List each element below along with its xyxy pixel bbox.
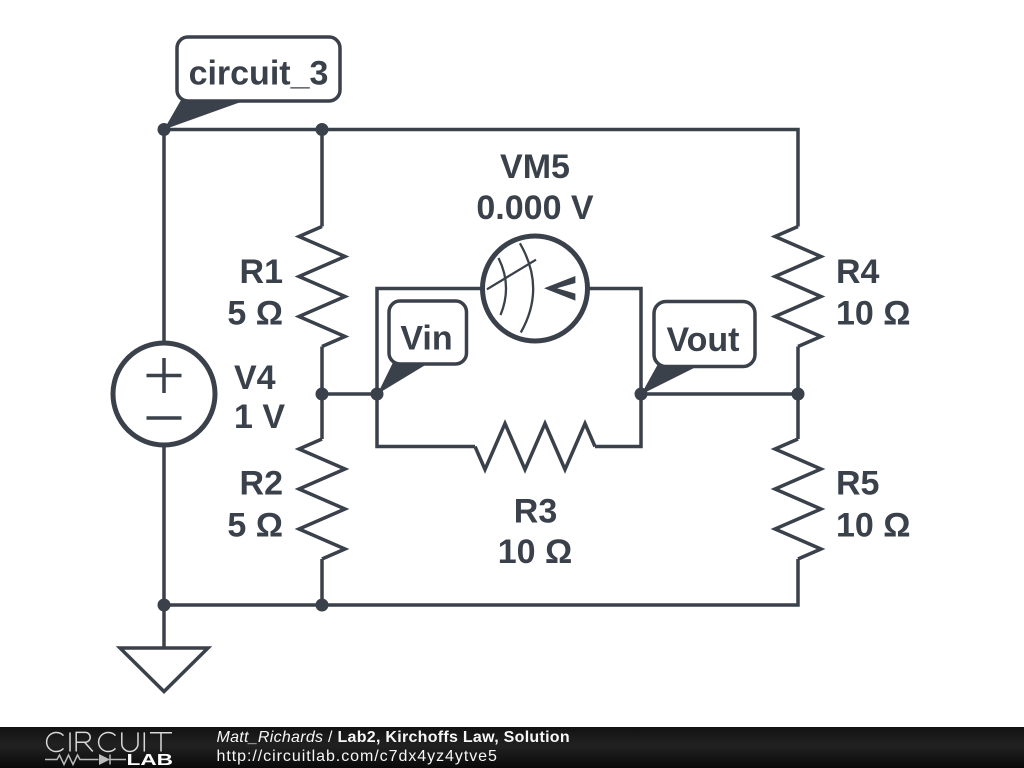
- svg-text:R4: R4: [836, 253, 880, 291]
- node junction bottom R2: [316, 599, 329, 612]
- CircuitLab logo resistor-diode symbol: [45, 755, 126, 765]
- footer attribution text: [217, 728, 570, 767]
- wire voltmeter left loop: [377, 289, 484, 447]
- svg-text:Vout: Vout: [666, 321, 739, 359]
- wire R2 bottom stub: [320, 559, 324, 605]
- svg-text:LAB: LAB: [127, 752, 174, 768]
- resistor R5: [775, 439, 821, 559]
- node circuit_3 flag bubble: [177, 37, 340, 101]
- node junction R1-R2: [316, 388, 329, 401]
- node Vin flag tail: [378, 363, 428, 395]
- voltmeter VM5 V mark: [544, 276, 575, 301]
- CircuitLab logo wordmark CIRCUIT: [47, 732, 172, 751]
- node Vout flag tail: [641, 364, 699, 395]
- wire left rail lower (V4 to bottom rail): [162, 444, 166, 605]
- wire left rail upper (V4 to top rail): [162, 130, 166, 345]
- svg-text:R2: R2: [240, 465, 283, 503]
- svg-text:R1: R1: [240, 253, 283, 291]
- resistor R2: [299, 439, 345, 559]
- voltage source V4 body: [113, 343, 215, 445]
- resistor R3: [475, 424, 595, 470]
- voltmeter VM5 gauge small arc: [499, 258, 507, 315]
- node junction bottom-left: [158, 599, 171, 612]
- node Vout junction: [635, 388, 648, 401]
- voltmeter VM5 body: [483, 236, 588, 341]
- node Vout flag bubble: [654, 302, 755, 367]
- svg-text:5 Ω: 5 Ω: [227, 295, 283, 333]
- voltmeter VM5 gauge large arc: [520, 243, 533, 332]
- svg-text:Vin: Vin: [400, 320, 452, 358]
- svg-text:1 V: 1 V: [234, 398, 285, 436]
- wire Vout link: [641, 392, 798, 396]
- node junction right mid: [792, 388, 805, 401]
- svg-text:R3: R3: [514, 493, 557, 531]
- node circuit_3 flag tail: [164, 100, 245, 130]
- wire node Vin link: [322, 392, 377, 396]
- voltage source V4 minus sign: [147, 416, 182, 420]
- ground: [120, 648, 208, 692]
- resistor R4: [775, 227, 821, 347]
- svg-text:10 Ω: 10 Ω: [836, 507, 911, 545]
- voltage source V4 plus sign: [147, 358, 182, 393]
- wire R1 top stub: [320, 130, 324, 227]
- node junction top-left: [158, 123, 171, 136]
- voltmeter VM5 needle: [487, 260, 536, 290]
- node junction top R1: [316, 123, 329, 136]
- wire right rail mid (R4 to R5): [796, 347, 800, 440]
- wire voltmeter right loop: [586, 289, 641, 447]
- svg-text:VM5: VM5: [500, 148, 570, 186]
- svg-text:10 Ω: 10 Ω: [498, 533, 573, 571]
- wire ground stub: [162, 605, 166, 648]
- footer bar: [0, 727, 1024, 768]
- wire R1-R2 mid stub: [320, 347, 324, 440]
- resistor R1: [299, 227, 345, 347]
- svg-text:10 Ω: 10 Ω: [836, 295, 911, 333]
- svg-text:R5: R5: [836, 465, 879, 503]
- svg-text:circuit_3: circuit_3: [189, 55, 329, 93]
- node Vin junction: [371, 388, 384, 401]
- svg-text:V4: V4: [234, 359, 276, 397]
- wire top rail: [164, 130, 798, 227]
- svg-text:0.000 V: 0.000 V: [476, 189, 594, 227]
- svg-text:5 Ω: 5 Ω: [227, 507, 283, 545]
- node Vin flag bubble: [389, 301, 467, 364]
- wire bottom rail: [164, 559, 798, 605]
